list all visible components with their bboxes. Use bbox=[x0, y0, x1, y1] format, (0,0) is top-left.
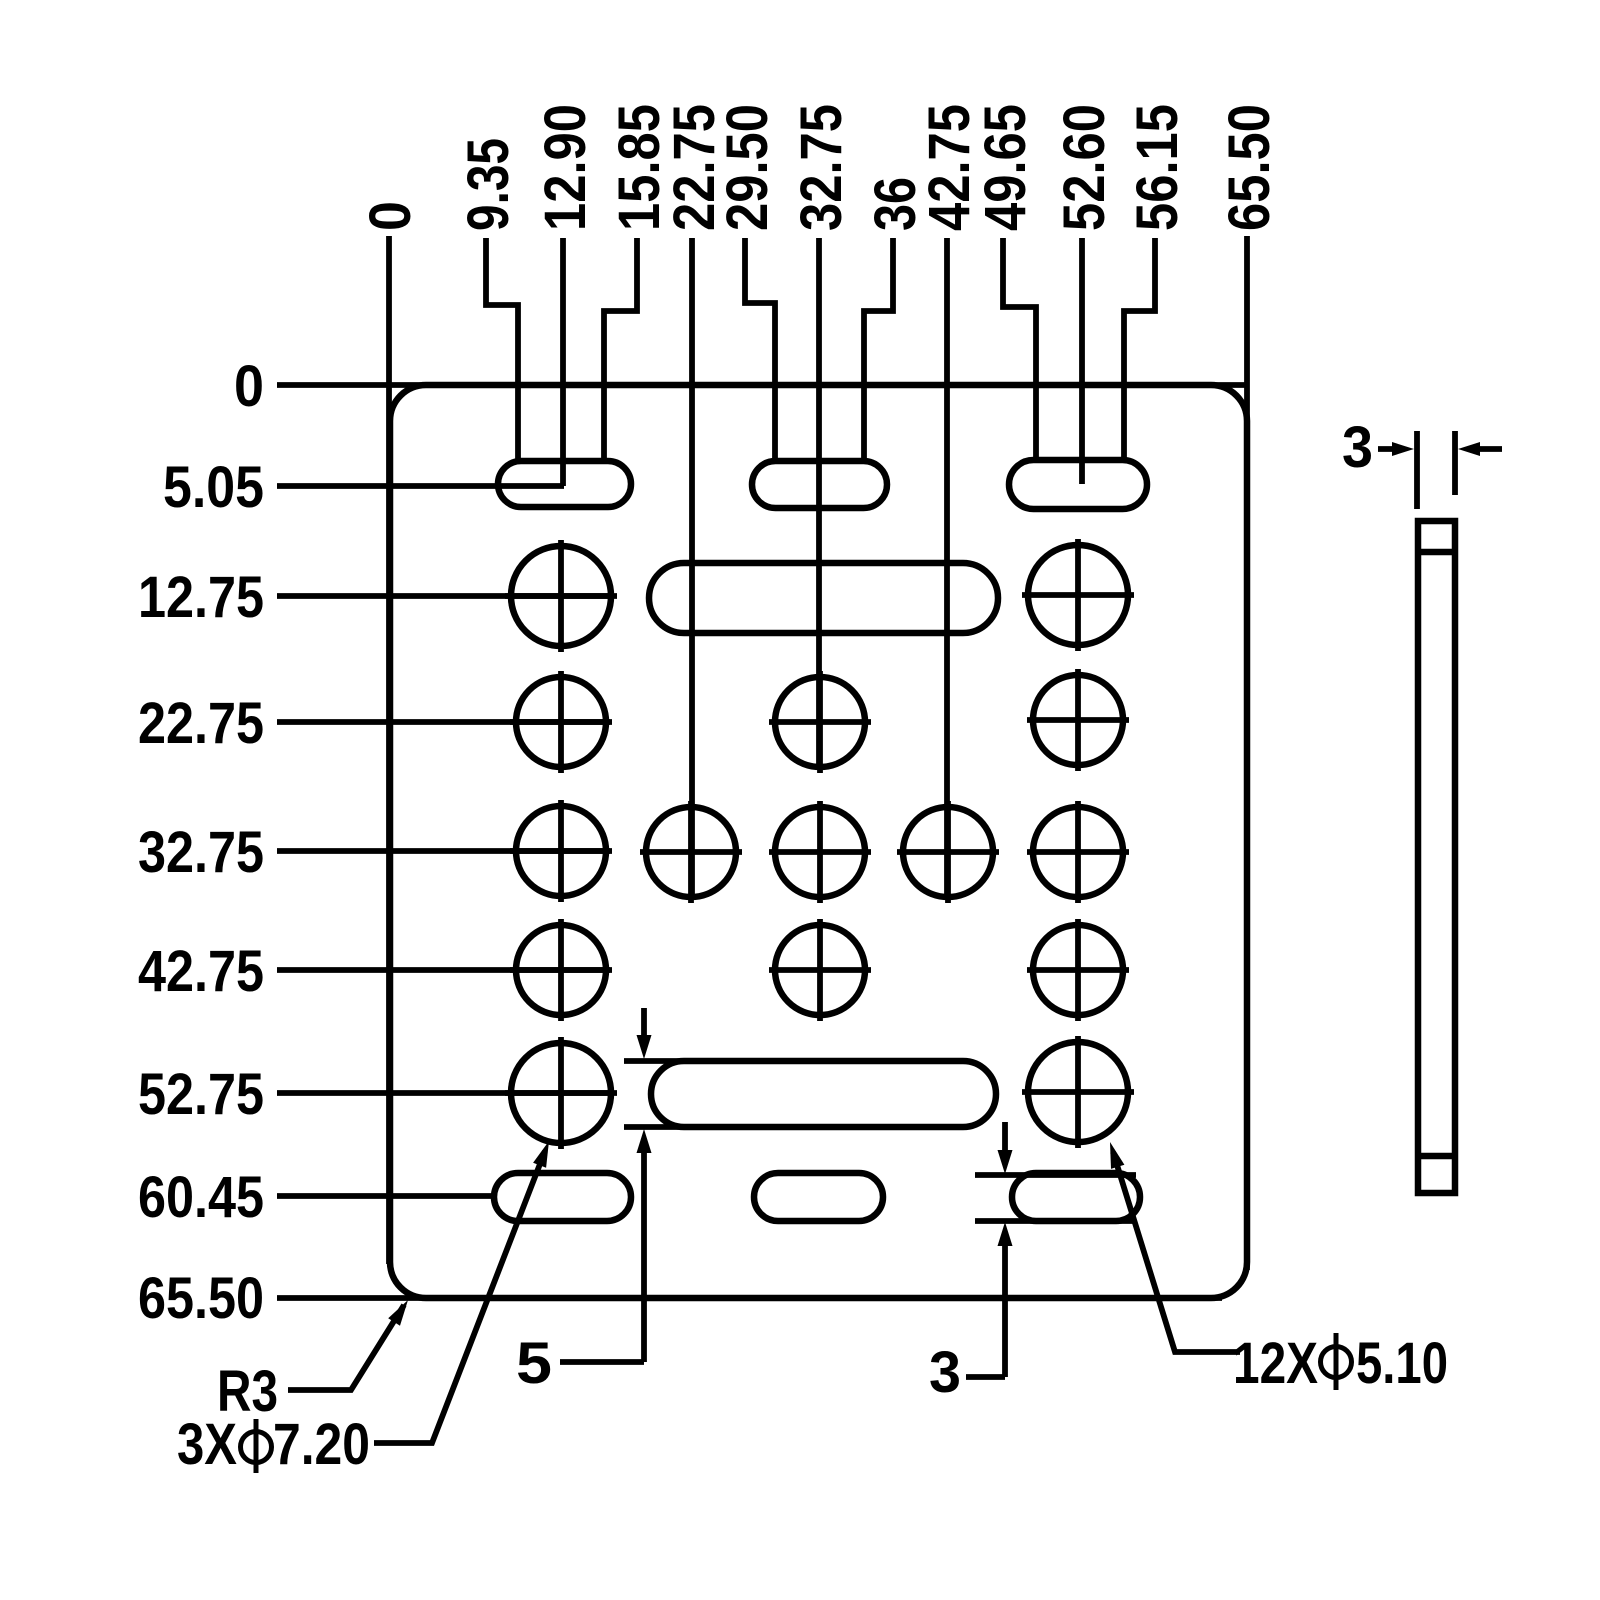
dim 5 arrow down bbox=[637, 1035, 652, 1059]
svg-text:29.50: 29.50 bbox=[715, 104, 780, 231]
plate outline (65.50 x 65.50, R3 corners) bbox=[390, 385, 1247, 1298]
leader 29.50 bbox=[745, 238, 775, 459]
side view bottom cap line bbox=[1418, 1153, 1455, 1160]
R3 arrowhead bbox=[388, 1300, 408, 1326]
leader 9.35 bbox=[486, 238, 518, 459]
leader 22.75 (top) bbox=[689, 238, 695, 897]
leader 12X Ø5.10 bbox=[1113, 1152, 1240, 1352]
dim 5 lower shaft bbox=[641, 1146, 647, 1362]
svg-text:49.65: 49.65 bbox=[973, 104, 1038, 231]
long slot row 12.75 bbox=[649, 563, 998, 633]
thickness arrow left line bbox=[1378, 446, 1400, 452]
leader 12.90 bbox=[560, 238, 566, 486]
svg-text:12X: 12X bbox=[1233, 1331, 1318, 1396]
svg-text:32.75: 32.75 bbox=[138, 820, 264, 885]
svg-text:5.05: 5.05 bbox=[163, 455, 264, 520]
dim 3 lower shaft bbox=[1002, 1238, 1008, 1377]
leader 22.75 (left) bbox=[277, 719, 610, 725]
hole B4 (Ø7.20) at (1078,1092) bbox=[1022, 1036, 1134, 1148]
leader 12.75 bbox=[277, 593, 614, 599]
side view plate body bbox=[1418, 521, 1455, 1193]
svg-text:5.10: 5.10 bbox=[1356, 1331, 1448, 1396]
svg-text:5: 5 bbox=[516, 1331, 552, 1396]
phi symbol (7.20) bbox=[241, 1419, 272, 1473]
hole S4 (Ø5.10) at (561,851) bbox=[510, 800, 612, 902]
leader 3X Ø7.20 bbox=[374, 1151, 545, 1443]
svg-text:32.75: 32.75 bbox=[789, 104, 854, 231]
svg-text:65.50: 65.50 bbox=[1217, 104, 1282, 231]
hole S6 (Ø5.10) at (820,852) bbox=[769, 801, 871, 903]
svg-text:12.75: 12.75 bbox=[138, 565, 264, 630]
leader 5.05 bbox=[277, 483, 564, 489]
leader 52.75 bbox=[277, 1090, 613, 1096]
dim 3 arrow up bbox=[998, 1222, 1013, 1246]
hole S9 (Ø5.10) at (561,970) bbox=[510, 919, 612, 1021]
hole S3 (Ø5.10) at (1078,720) bbox=[1027, 669, 1129, 771]
hole S7 (Ø5.10) at (948,852) bbox=[897, 801, 999, 903]
extension line top of long slot bbox=[624, 1058, 681, 1064]
hole S1 (Ø5.10) at (561,722) bbox=[510, 671, 612, 773]
svg-text:3X: 3X bbox=[177, 1412, 237, 1477]
svg-text:42.75: 42.75 bbox=[138, 939, 264, 1004]
slot bottom-middle (row 60.45) bbox=[754, 1173, 883, 1221]
datum line x=0 / left edge extension bbox=[386, 236, 392, 1264]
leader 56.15 bbox=[1124, 238, 1155, 458]
svg-text:65.50: 65.50 bbox=[138, 1266, 264, 1331]
thickness arrow right head bbox=[1458, 442, 1480, 456]
svg-text:22.75: 22.75 bbox=[138, 691, 264, 756]
datum line y=65.50 / bottom edge extension bbox=[277, 1295, 1222, 1301]
slot bottom-right (row 60.45) bbox=[1012, 1173, 1140, 1221]
leader 32.75 (top) bbox=[816, 238, 822, 768]
slot top-left (row 5.05) bbox=[498, 461, 631, 507]
extension line top of bottom-right slot bbox=[975, 1172, 1136, 1178]
svg-text:60.45: 60.45 bbox=[138, 1165, 264, 1230]
leader 15.85 bbox=[604, 238, 637, 459]
leader 60.45 bbox=[277, 1193, 497, 1199]
dim 5 arrow up bbox=[637, 1129, 652, 1153]
svg-text:0: 0 bbox=[358, 201, 423, 231]
dim 3 label line bbox=[966, 1374, 1005, 1380]
hole S5 (Ø5.10) at (691,852) bbox=[640, 801, 742, 903]
hole B1 (Ø7.20) at (561,596) bbox=[505, 540, 617, 652]
thickness arrow left head bbox=[1392, 442, 1414, 456]
12X Ø5.10 arrowhead bbox=[1110, 1142, 1124, 1169]
dim 3 arrow down bbox=[998, 1150, 1013, 1174]
svg-text:52.75: 52.75 bbox=[138, 1062, 264, 1127]
thickness arrow right line bbox=[1472, 446, 1502, 452]
svg-text:52.60: 52.60 bbox=[1052, 104, 1117, 231]
hole S2 (Ø5.10) at (820,722) bbox=[769, 671, 871, 773]
long slot row 52.75 bbox=[651, 1061, 996, 1127]
extension line bottom of long slot bbox=[624, 1124, 681, 1130]
svg-text:3: 3 bbox=[929, 1340, 961, 1405]
dim 5 label line bbox=[560, 1359, 644, 1365]
leader 52.60 bbox=[1079, 238, 1085, 484]
slot bottom-left (row 60.45) bbox=[494, 1173, 631, 1221]
side thickness tick left bbox=[1414, 431, 1420, 509]
dim 5 upper shaft bbox=[641, 1008, 647, 1042]
svg-text:56.15: 56.15 bbox=[1125, 104, 1190, 231]
leader 36 bbox=[864, 238, 893, 459]
hole S10 (Ø5.10) at (820,970) bbox=[769, 919, 871, 1021]
extension line bottom of bottom-right slot bbox=[975, 1218, 1136, 1224]
svg-text:0: 0 bbox=[234, 354, 264, 419]
leader R3 bbox=[288, 1305, 404, 1390]
hole S8 (Ø5.10) at (1078,852) bbox=[1027, 801, 1129, 903]
hole B3 (Ø7.20) at (561,1093) bbox=[505, 1037, 617, 1149]
svg-text:7.20: 7.20 bbox=[273, 1412, 370, 1477]
slot top-right (row 5.05) bbox=[1009, 460, 1147, 509]
leader 32.75 (left) bbox=[277, 848, 610, 854]
hole B2 (Ø7.20) at (1078,595) bbox=[1022, 539, 1134, 651]
leader 42.75 (top) bbox=[944, 238, 950, 897]
svg-text:9.35: 9.35 bbox=[456, 138, 521, 231]
side view top cap line bbox=[1418, 549, 1455, 556]
svg-text:3: 3 bbox=[1342, 415, 1373, 480]
3X Ø7.20 arrowhead bbox=[533, 1141, 549, 1168]
hole S11 (Ø5.10) at (1078,970) bbox=[1027, 919, 1129, 1021]
leader 42.75 (left) bbox=[277, 967, 610, 973]
phi symbol (5.10) bbox=[1321, 1333, 1352, 1390]
slot top-middle (row 5.05) bbox=[752, 461, 887, 508]
dim 3 upper shaft bbox=[1002, 1122, 1008, 1157]
side thickness tick right bbox=[1452, 431, 1458, 495]
svg-text:12.90: 12.90 bbox=[533, 104, 598, 231]
leader 49.65 bbox=[1003, 238, 1036, 458]
datum line y=0 / top edge extension bbox=[277, 382, 1247, 388]
datum line x=65.50 / right edge extension bbox=[1244, 236, 1250, 1270]
